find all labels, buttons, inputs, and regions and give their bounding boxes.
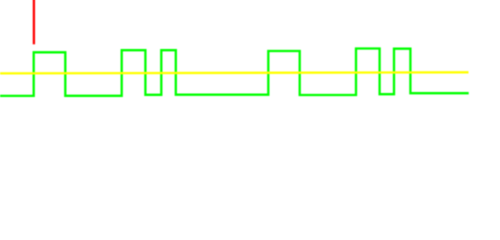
trigger level line (yellow) [0,72,469,73]
signal trace CH1 (green square wave) [0,49,469,96]
trigger position marker (red vertical line) [33,0,35,44]
